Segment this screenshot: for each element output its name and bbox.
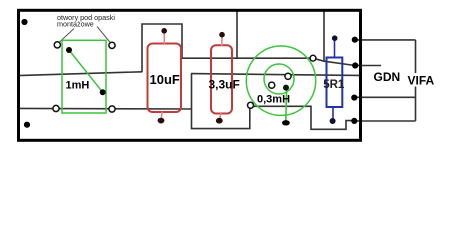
wire: external vertical bracket [415, 40, 417, 121]
terminal dot C [351, 95, 357, 101]
capacitor C1 10uF (red) [148, 33, 182, 120]
hole circle in coil (on wire) [285, 73, 291, 79]
wire: staple around 10uF top [142, 24, 182, 72]
label: otwory pod opaski montazowe [57, 13, 115, 28]
solder dot L1 top [66, 47, 72, 53]
svg-text:3,3uF: 3,3uF [209, 78, 240, 92]
solder dot C2 bottom [216, 118, 223, 124]
wire: terminal B stub (GDN) [356, 65, 381, 67]
resistor R1 5R1 (blue) [327, 40, 343, 119]
svg-text:0,3mH: 0,3mH [257, 93, 290, 105]
inductor L1 1mH (green rectangle with diagonal) [62, 40, 106, 113]
wire: mid-left horizontal (border to staple) [18, 72, 142, 76]
inductor L2 0,3mH (green circles) [246, 46, 315, 121]
hole circle bottom-right of L1 [109, 106, 115, 112]
capacitor C2 3,3uF (red) [211, 37, 232, 119]
solder dot R1 top [332, 35, 338, 41]
solder dot C2 top [219, 32, 225, 38]
terminal dot B [352, 62, 358, 68]
wire: second middle run [191, 74, 359, 76]
svg-text:5R1: 5R1 [323, 79, 345, 91]
wire: terminal D to external bracket [356, 120, 416, 122]
white backing of VIFA label [407, 73, 436, 87]
wire: vertical from top border at x=237 [236, 11, 238, 59]
board outline [19, 10, 361, 140]
wire: bottom-right jog to terminal D [253, 106, 354, 129]
pointer line to top-right hole [97, 27, 111, 44]
hole circle on upper wire near board right [310, 55, 316, 61]
terminal dot D [351, 118, 357, 124]
hole circle at end of bottom jog [248, 102, 254, 108]
wire: vertical from top border at x=324 [323, 11, 325, 62]
hole circle bottom-left of L1 [53, 105, 59, 111]
mounting dot bottom-left [24, 122, 30, 128]
svg-text:1mH: 1mH [66, 80, 90, 92]
svg-text:montażowe: montażowe [57, 20, 94, 29]
wire: bottom-left horizontal [18, 107, 192, 110]
svg-text:10uF: 10uF [150, 72, 180, 87]
solder dot L1 bottom [100, 89, 106, 95]
hole circle top-right of L1 [109, 42, 115, 48]
wire: terminal C to external bracket [356, 96, 416, 98]
hole circle in coil (lower-left) [269, 82, 275, 88]
wire: bottom jog left of coil [191, 108, 250, 129]
wire: vertical at x=191.5 [191, 74, 193, 129]
hole circle top-left of L1 [54, 42, 60, 48]
wire: upper middle run to terminal B [182, 58, 355, 65]
solder dot L2 bottom [282, 120, 290, 125]
wire: terminal A to external bracket [356, 39, 416, 41]
solder dot R1 bottom [330, 118, 336, 124]
mounting dot top-left [21, 19, 27, 25]
solder dot L2 inner [283, 85, 289, 91]
terminal dot A [352, 37, 358, 43]
svg-text:GDN: GDN [374, 70, 401, 84]
solder dot C1 bottom [158, 118, 165, 124]
pointer line to top-left hole [59, 29, 75, 44]
svg-text:VIFA: VIFA [408, 73, 435, 87]
solder dot C1 top [161, 28, 167, 34]
